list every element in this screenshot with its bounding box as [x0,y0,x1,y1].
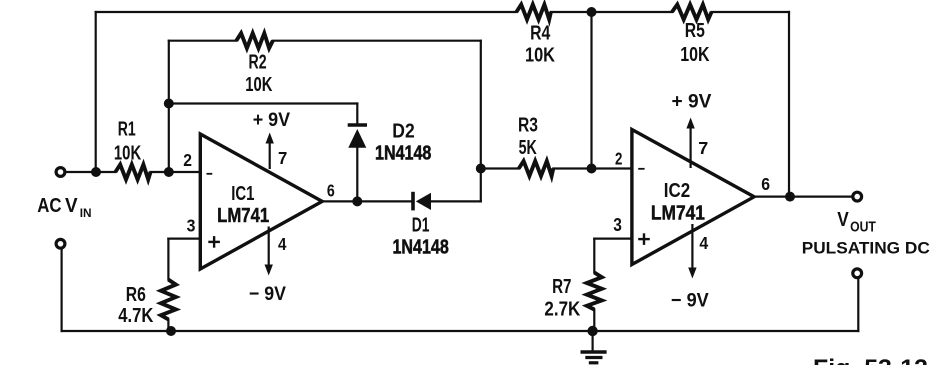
svg-text:R6: R6 [126,282,146,306]
svg-text:R5: R5 [685,18,705,42]
svg-text:10K: 10K [525,43,556,66]
resistor R4 [516,5,551,20]
svg-text:4: 4 [699,233,708,253]
svg-text:1N4148: 1N4148 [393,236,449,258]
op-amp IC2 minus input sign [638,168,644,170]
ground [581,352,607,363]
svg-text:PULSATING DC: PULSATING DC [802,239,930,258]
resistor R1 [115,165,150,180]
wire IC2 pin 3 vertical to R7 [593,239,595,273]
op-amp IC1 [200,134,322,269]
svg-text:1N4148: 1N4148 [375,142,431,164]
op-amp IC2 [632,130,754,265]
svg-text:6: 6 [327,181,335,201]
wire vertical x=480.8 feedback to D1 node [480,41,482,202]
svg-text:2: 2 [183,150,192,170]
svg-text:7: 7 [278,147,287,168]
wire R2 feedback left segment y=40.7 [169,40,237,42]
svg-text:5K: 5K [519,135,537,158]
wire R3 to IC2 pin 2 [553,167,632,169]
resistor R2 [236,33,272,48]
wire D2 branch vertical lower [356,149,358,202]
junction node R7 / ground [587,326,597,336]
junction node top bus / summing [587,7,597,17]
power +9V arrow IC1 pin 7 [266,133,274,170]
svg-text:3: 3 [187,216,196,236]
svg-text:10K: 10K [245,73,272,96]
svg-text:D1: D1 [412,213,430,236]
svg-text:6: 6 [761,174,770,194]
svg-text:D2: D2 [392,120,414,143]
svg-text:− 9V: − 9V [671,289,709,311]
wire IC1 output to D1 [322,200,413,202]
wire bottom bus y=331 [62,330,859,332]
wire IC2 output to Vout terminal [754,196,852,198]
svg-text:− 9V: − 9V [249,282,287,304]
svg-text:3: 3 [613,215,622,235]
junction node D2 branch tap [164,99,174,109]
wire left vertical from top bus to input node [95,12,97,172]
wire summing vertical x=591.5 from top bus to IC2 pin2 [590,12,592,169]
junction node IC1 output / D2 [352,196,362,206]
svg-text:2.7K: 2.7K [544,297,580,320]
wire R1 to IC1 pin 2 [151,171,201,173]
terminal AC VIN lower [56,239,65,248]
svg-text:AC: AC [37,194,62,217]
svg-text:IC2: IC2 [664,179,690,202]
svg-text:IC1: IC1 [231,182,254,205]
terminal AC VIN upper [56,168,65,177]
wire D2 branch horizontal y=103.5 [169,102,357,104]
svg-text:IN: IN [80,206,92,220]
power -9V arrow IC2 pin 4 [688,224,696,279]
svg-text:OUT: OUT [850,218,876,234]
wire R7 to bottom bus [593,310,595,332]
wire IC1 pin 3 horizontal [168,238,200,240]
wire vertical x=168.8 from R2 feedback down to pin2 node [168,41,170,172]
wire R2 feedback right segment to x=480.8 [273,40,481,42]
resistor R7 (vertical) [587,273,602,310]
wire top bus segment R5 to right corner [712,11,790,13]
wire IC1 pin 3 vertical to R6 [167,239,169,280]
svg-text:R3: R3 [518,112,538,136]
svg-text:V: V [65,195,78,218]
wire top bus segment R4 to R5 [551,11,672,13]
wire D1 to right vertical [431,200,481,202]
svg-text:+ 9V: + 9V [253,108,291,130]
wire right vertical x=789 top bus to output node [788,12,790,197]
wire bottom-left vertical to lower input terminal [60,249,62,331]
svg-text:R7: R7 [552,275,571,298]
wire R3 left segment y=168.5 [481,167,519,169]
op-amp IC2 plus input sign [638,233,650,245]
svg-text:Fig. 53-12: Fig. 53-12 [813,355,928,365]
svg-text:R2: R2 [249,50,267,73]
resistor R5 [672,5,712,20]
svg-text:LM741: LM741 [651,201,705,223]
wire input terminal to R1 [65,171,115,173]
power +9V arrow IC2 pin 7 [686,118,694,169]
wire ground stub [591,331,593,351]
svg-text:2: 2 [615,150,623,169]
wire top bus y=12 (input node to R4) [96,11,517,13]
junction node R3 tap [476,164,486,174]
op-amp IC1 plus input sign [208,236,220,248]
svg-text:LM741: LM741 [217,203,269,226]
junction node input/R1 [91,167,101,177]
wire R6 to bottom bus [167,319,169,331]
svg-text:V: V [837,209,849,232]
svg-text:10K: 10K [114,141,141,164]
junction node IC2 pin2 summing [587,164,597,174]
svg-text:7: 7 [698,138,708,158]
wire bottom-right vertical to lower output terminal [857,278,859,331]
resistor R6 (vertical) [161,280,176,320]
diode D2 (vertical, cathode up) [348,125,367,148]
junction node IC1 pin2 / feedback [164,167,174,177]
op-amp IC1 minus input sign [207,173,213,175]
junction node IC2 output [785,192,795,202]
power -9V arrow IC1 pin 4 [265,227,273,276]
svg-text:R1: R1 [118,117,136,140]
svg-text:R4: R4 [530,20,551,44]
resistor R3 [519,161,554,176]
junction node R6 / bottom bus [166,326,176,336]
diode D1 (horizontal, cathode left) [413,192,431,211]
terminal VOUT upper [853,192,862,201]
svg-text:10K: 10K [680,42,710,65]
terminal VOUT lower [853,269,862,278]
svg-text:4: 4 [278,234,287,255]
svg-text:4.7K: 4.7K [118,303,154,326]
wire IC2 pin 3 horizontal [594,238,632,240]
wire D2 branch vertical upper [356,104,358,125]
svg-text:+ 9V: + 9V [672,91,712,112]
